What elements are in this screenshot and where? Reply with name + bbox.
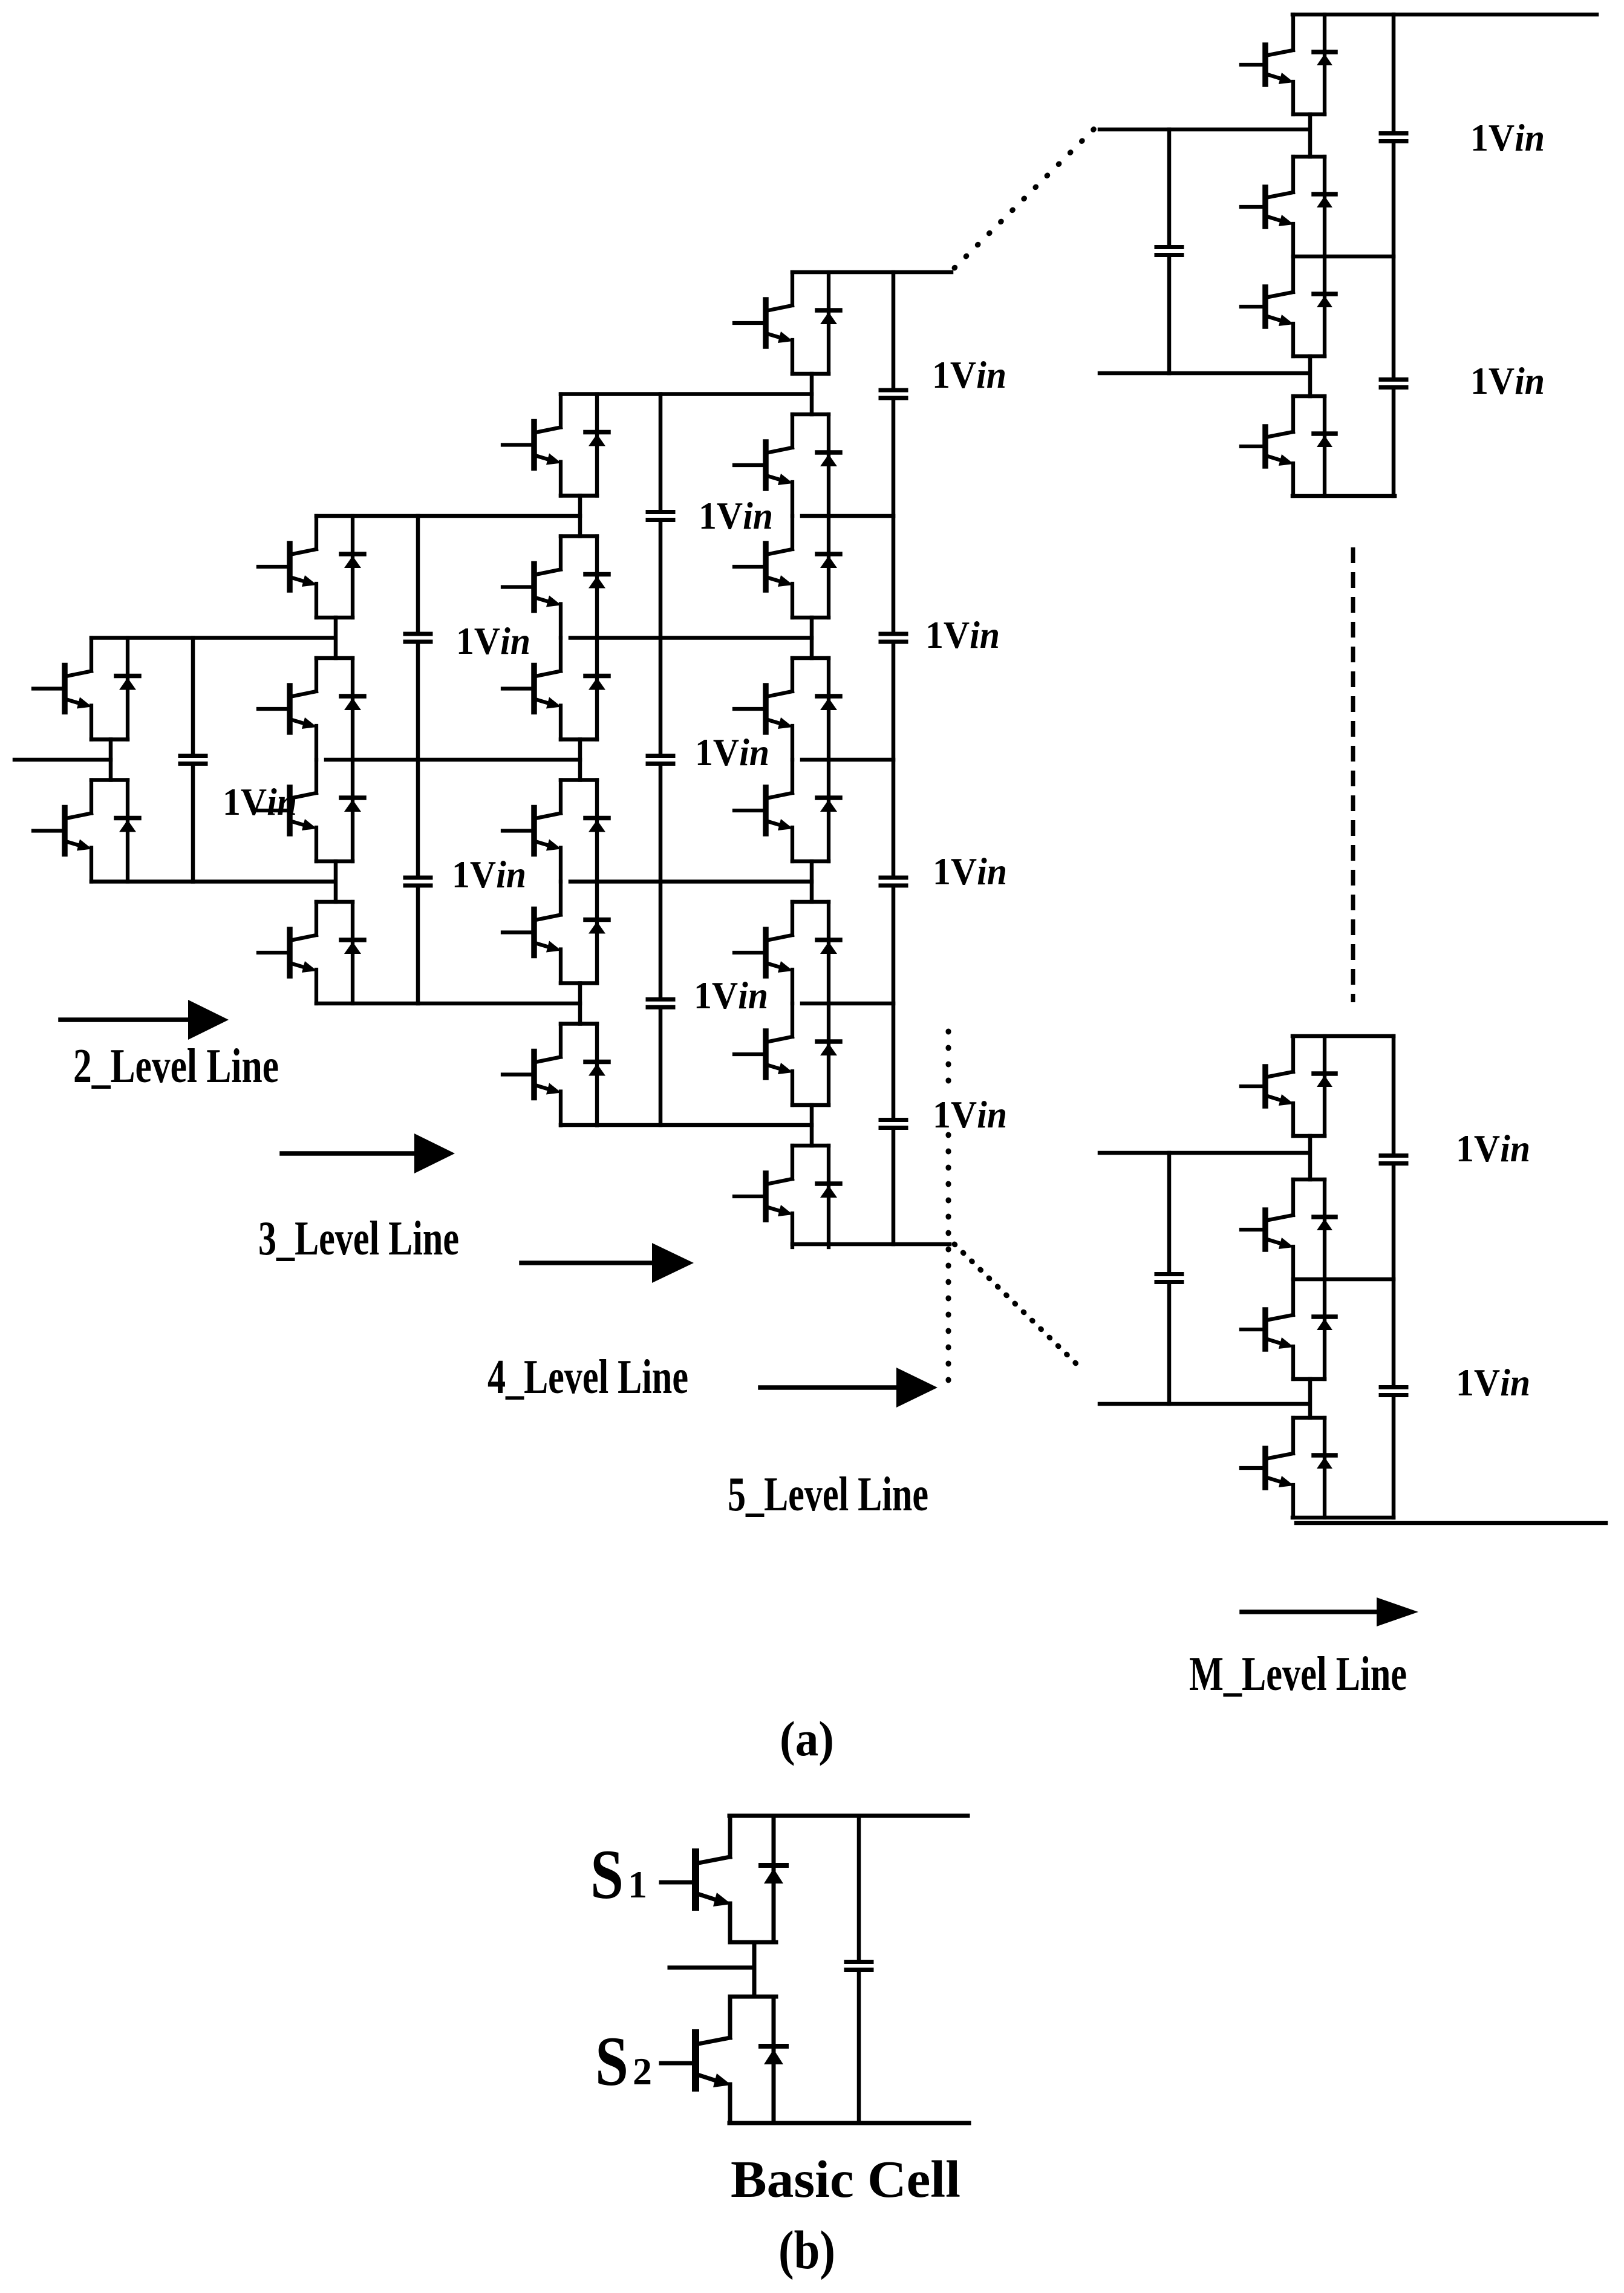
capacitor: M-level top stack right capacitor 1 xyxy=(1381,134,1406,142)
wire: 5-level cell 1 upper box-bottom jog xyxy=(792,372,829,376)
svg-text:1Vin: 1Vin xyxy=(695,731,769,774)
wire: 5-level cell 3 lower box-top jog xyxy=(792,900,829,904)
wire: 3-level cell 1 upper box-bottom jog xyxy=(316,616,353,620)
transistor: 5-level column cell 1 upper IGBT with antiparallel diode xyxy=(734,272,840,374)
capacitor: M-level bottom stack right capacitor 1 xyxy=(1381,1156,1406,1164)
wire: M-level top stack rail 1 xyxy=(1100,128,1309,132)
svg-text:M_Level Line: M_Level Line xyxy=(1189,1648,1407,1701)
capacitor: 5-level column C3 xyxy=(881,878,906,886)
capacitor rail of 5-level column xyxy=(892,272,896,1244)
capacitor: 4-level column C3 xyxy=(648,999,673,1007)
capacitor rail (left) of M-level top stack xyxy=(1167,129,1172,373)
wire: M-level top stack middle cell box-top jog xyxy=(1293,155,1325,159)
wire: 4-level cell 2 lower box-top jog xyxy=(561,778,597,782)
5_Level Line arrow xyxy=(760,1368,938,1407)
transistor S2 (basic cell lower IGBT with antiparallel diode) xyxy=(661,1997,786,2123)
transistor: 4-level column cell 2 lower IGBT with antiparallel diode xyxy=(503,780,608,882)
capacitor rail (right) of M-level bottom stack xyxy=(1392,1036,1396,1518)
wire: M-level bottom stack lead to rail 1 xyxy=(1308,1136,1313,1179)
capacitor: 3-level column C1 xyxy=(405,634,431,642)
transistor: 4-level column cell 2 upper IGBT with antiparallel diode xyxy=(503,638,608,740)
wire: M-level bottom stack box-bottom rail xyxy=(1293,1516,1394,1520)
transistor: 5-level column cell 4 upper IGBT with antiparallel diode xyxy=(734,1003,840,1105)
wire: 4-level cell 1 midpoint lead xyxy=(578,496,582,537)
transistor: 5-level column cell 3 lower IGBT with antiparallel diode xyxy=(734,902,840,1003)
wire: M-level bottom stack rail 1 xyxy=(1100,1151,1309,1155)
capacitor: 4-level column C2 xyxy=(648,756,673,764)
svg-text:1Vin: 1Vin xyxy=(456,620,530,662)
svg-text:1Vin: 1Vin xyxy=(1456,1362,1530,1404)
svg-text:1Vin: 1Vin xyxy=(925,614,1000,656)
wire: 3-level cell 1 midpoint lead xyxy=(334,618,338,658)
wire: 3-level cell 2 lower box-top jog xyxy=(316,900,353,904)
capacitor: M-level bottom stack left capacitor xyxy=(1156,1274,1182,1282)
wire: 5-level cell 4 upper box-bottom jog xyxy=(792,1103,829,1107)
wire: M-level top stack middle cell midpoint line xyxy=(1293,255,1394,259)
wire: S1 box-bottom jog xyxy=(730,1940,776,1945)
wire: 2_Level output line xyxy=(15,758,111,762)
capacitor rail of 4-level column xyxy=(659,394,663,1126)
svg-text:1Vin: 1Vin xyxy=(694,974,768,1017)
wire: Q2 collector box-top jog xyxy=(91,778,128,782)
wire: 5-level column middle rail 1 xyxy=(802,514,893,518)
svg-text:3_Level Line: 3_Level Line xyxy=(258,1212,459,1265)
transistor: 3-level column cell 2 lower IGBT with antiparallel diode xyxy=(258,902,364,1003)
wire: M-level top stack bottom rail xyxy=(1293,494,1395,498)
transistor: M-level top stack IGBT 1 with antiparallel diode xyxy=(1241,15,1335,114)
3_Level Line arrow xyxy=(282,1133,455,1173)
transistor: M-level bottom stack middle cell upper IGBT with antiparallel diode xyxy=(1241,1179,1335,1279)
transistor: 4-level column cell 1 lower IGBT with antiparallel diode xyxy=(503,537,608,638)
capacitor rail (left) of M-level bottom stack xyxy=(1167,1153,1172,1404)
wire: 4-level column bottom rail xyxy=(561,1123,812,1127)
wire: 4-level column top rail xyxy=(561,392,812,396)
transistor: 4-level column cell 3 upper IGBT with antiparallel diode xyxy=(503,882,608,983)
transistor: 5-level column cell 4 lower IGBT with antiparallel diode xyxy=(734,1146,840,1247)
dotted continuation diagonal from 5-level top rail to M-level top stack xyxy=(954,127,1096,268)
wire: 5-level cell 1 midpoint lead xyxy=(810,374,814,414)
svg-text:1Vin: 1Vin xyxy=(1470,117,1545,159)
2_Level Line arrow xyxy=(60,1000,229,1040)
wire: 3-level cell 2 midpoint lead xyxy=(334,861,338,902)
transistor: 3-level column cell 2 upper IGBT with antiparallel diode xyxy=(258,760,364,861)
wire: M-level bottom stack middle cell box-bottom jog xyxy=(1293,1377,1325,1381)
wire: M-level bottom stack IGBT1 box-bottom jog xyxy=(1293,1134,1325,1138)
wire: M-level bottom stack middle cell box-top jog xyxy=(1293,1178,1325,1182)
wire: 5-level cell 2 upper box-bottom jog xyxy=(792,616,829,620)
transistor: 5-level column cell 1 lower IGBT with antiparallel diode xyxy=(734,414,840,516)
wire: 3-level column bottom rail xyxy=(316,1002,580,1006)
capacitor: M-level bottom stack right capacitor 2 xyxy=(1381,1388,1406,1395)
transistor: 5-level column cell 2 lower IGBT with antiparallel diode xyxy=(734,658,840,760)
svg-text:4_Level Line: 4_Level Line xyxy=(488,1351,688,1404)
svg-text:1Vin: 1Vin xyxy=(1470,360,1545,402)
wire: 5-level column middle rail 2 xyxy=(802,758,893,762)
wire: 5-level column top rail xyxy=(792,270,951,275)
transistor Q2 (2-level cell lower IGBT with antiparallel diode) xyxy=(33,780,139,882)
wire: M-level top stack IGBT1 box-bottom jog xyxy=(1293,113,1325,117)
dashed continuation vertical between M-level stacks xyxy=(1351,547,1355,1002)
svg-text:(a): (a) xyxy=(780,1711,834,1766)
wire: 5-level column bottom rail xyxy=(792,1242,950,1247)
wire: M-level top stack IGBT4 box-top jog xyxy=(1293,394,1325,399)
capacitor of basic cell xyxy=(846,1962,872,1970)
wire: basic cell midpoint lead xyxy=(752,1942,757,1997)
capacitor C1 rail (2-level cell) xyxy=(191,638,195,882)
wire: 4-level column middle rail 1 xyxy=(570,636,812,640)
capacitor: 5-level column C4 xyxy=(881,1120,906,1128)
wire: basic cell top rail xyxy=(729,1814,968,1818)
svg-text:Basic Cell: Basic Cell xyxy=(731,2150,960,2208)
capacitor: 5-level column C1 xyxy=(881,390,906,398)
wire: 5-level cell 4 midpoint lead xyxy=(810,1105,814,1146)
dotted continuation vertical below 5-level column (upper segment) xyxy=(946,1031,951,1096)
wire: 4-level cell 2 upper box-bottom jog xyxy=(561,737,597,742)
transistor: 4-level column cell 1 upper IGBT with antiparallel diode xyxy=(503,394,608,496)
wire: 3-level cell 2 upper box-bottom jog xyxy=(316,859,353,864)
wire: 5-level cell 2 midpoint lead xyxy=(810,618,814,658)
M_Level Line arrow xyxy=(1242,1597,1418,1626)
wire: M-level bottom stack rail 2 xyxy=(1100,1402,1309,1406)
svg-text:2_Level Line: 2_Level Line xyxy=(73,1040,279,1093)
wire: 2-level column bottom rail xyxy=(91,879,335,884)
transistor: M-level top stack middle cell upper IGBT with antiparallel diode xyxy=(1241,157,1335,256)
wire: 4-level cell 1 lower box-top jog xyxy=(561,534,597,538)
capacitor: 4-level column C1 xyxy=(648,512,673,520)
transistor: M-level top stack middle cell lower IGBT with antiparallel diode xyxy=(1241,256,1335,356)
wire: basic cell bottom rail xyxy=(729,2121,969,2125)
wire: 5-level cell 3 upper box-bottom jog xyxy=(792,859,829,864)
wire: S2 box-top jog xyxy=(730,1995,776,1999)
capacitor C1 xyxy=(180,756,206,764)
wire: 4-level cell 3 lower box-top jog xyxy=(561,1022,597,1026)
wire: M-level top stack lead to rail 1 xyxy=(1308,114,1313,157)
wire: 2-level cell midpoint lead xyxy=(109,740,113,780)
wire: M-level bottom stack middle cell midpoint line xyxy=(1293,1277,1394,1282)
svg-text:(b): (b) xyxy=(778,2220,835,2280)
svg-text:1Vin: 1Vin xyxy=(933,1094,1007,1136)
transistor Q1 (2-level cell upper IGBT with antiparallel diode) xyxy=(33,638,139,740)
capacitor: 5-level column C2 xyxy=(881,634,906,642)
wire: M-level output rail xyxy=(1296,1521,1606,1525)
transistor S1 (basic cell upper IGBT with antiparallel diode) xyxy=(661,1816,786,1942)
svg-text:S: S xyxy=(590,1836,624,1914)
transistor: M-level top stack IGBT 4 with antiparallel diode xyxy=(1241,396,1335,496)
wire: Q1 emitter box-bottom jog xyxy=(91,737,128,742)
transistor: M-level bottom stack IGBT 4 with antiparallel diode xyxy=(1241,1418,1335,1518)
capacitor: M-level top stack left capacitor xyxy=(1156,247,1182,255)
wire: 3-level cell 1 lower box-top jog xyxy=(316,656,353,661)
capacitor: 3-level column C2 xyxy=(405,878,431,886)
transistor: 3-level column cell 1 upper IGBT with antiparallel diode xyxy=(258,516,364,618)
wire: M-level top stack rail 2 xyxy=(1100,371,1309,376)
capacitor rail (right) of M-level top stack xyxy=(1392,15,1396,496)
wire: 4-level column middle rail 2 xyxy=(570,879,812,884)
wire: M-level top stack lead to rail 2 xyxy=(1308,356,1313,396)
capacitor rail of basic cell xyxy=(857,1816,861,2123)
svg-text:1Vin: 1Vin xyxy=(452,853,526,896)
svg-text:S: S xyxy=(595,2023,628,2101)
wire: 5-level cell 4 lower box-top jog xyxy=(792,1144,829,1148)
wire: basic cell input line xyxy=(670,1966,754,1970)
wire: 5-level cell 3 midpoint lead xyxy=(810,861,814,902)
capacitor: M-level top stack right capacitor 2 xyxy=(1381,380,1406,388)
wire: 3-level column middle rail 1 xyxy=(326,758,580,762)
wire: 2-level column top rail xyxy=(91,636,335,640)
wire: M-level top stack middle cell box-bottom jog xyxy=(1293,354,1325,359)
transistor: 3-level column cell 1 lower IGBT with antiparallel diode xyxy=(258,658,364,760)
wire: M-level top stack top rail xyxy=(1293,13,1597,17)
wire: 4-level cell 1 upper box-bottom jog xyxy=(561,494,597,498)
wire: 5-level column middle rail 3 xyxy=(802,1002,893,1006)
dotted continuation diagonal from 5-level bottom rail to M-level bottom stack xyxy=(954,1244,1084,1371)
transistor: 5-level column cell 2 upper IGBT with antiparallel diode xyxy=(734,516,840,618)
wire: M-level bottom stack lead to rail 2 xyxy=(1308,1379,1313,1418)
wire: M-level bottom stack IGBT4 box-top jog xyxy=(1293,1416,1325,1420)
transistor: 5-level column cell 3 upper IGBT with antiparallel diode xyxy=(734,760,840,861)
4_Level Line arrow xyxy=(521,1243,694,1283)
wire: 5-level cell 2 lower box-top jog xyxy=(792,656,829,661)
svg-text:1Vin: 1Vin xyxy=(933,850,1007,893)
transistor: 4-level column cell 3 lower IGBT with antiparallel diode xyxy=(503,1024,608,1126)
wire: 4-level cell 3 upper box-bottom jog xyxy=(561,981,597,985)
wire: M-level bottom stack top rail xyxy=(1293,1034,1394,1039)
transistor: M-level bottom stack IGBT 1 with antiparallel diode xyxy=(1241,1036,1335,1136)
svg-text:1Vin: 1Vin xyxy=(699,495,773,537)
wire: 4-level cell 2 midpoint lead xyxy=(578,740,582,780)
svg-text:1: 1 xyxy=(628,1863,647,1906)
wire: 3-level column top rail xyxy=(316,514,580,518)
svg-text:2: 2 xyxy=(633,2050,652,2093)
wire: 5-level cell 1 lower box-top jog xyxy=(792,413,829,417)
wire: 4-level cell 3 midpoint lead xyxy=(578,983,582,1024)
svg-text:1Vin: 1Vin xyxy=(1456,1127,1530,1170)
transistor: M-level bottom stack middle cell lower IGBT with antiparallel diode xyxy=(1241,1279,1335,1379)
svg-text:1Vin: 1Vin xyxy=(223,781,297,823)
svg-text:1Vin: 1Vin xyxy=(932,354,1006,396)
capacitor rail of 3-level column xyxy=(416,516,420,1003)
svg-text:5_Level Line: 5_Level Line xyxy=(728,1468,928,1521)
dotted continuation vertical below 5-level column (lower segment) xyxy=(946,1135,951,1385)
